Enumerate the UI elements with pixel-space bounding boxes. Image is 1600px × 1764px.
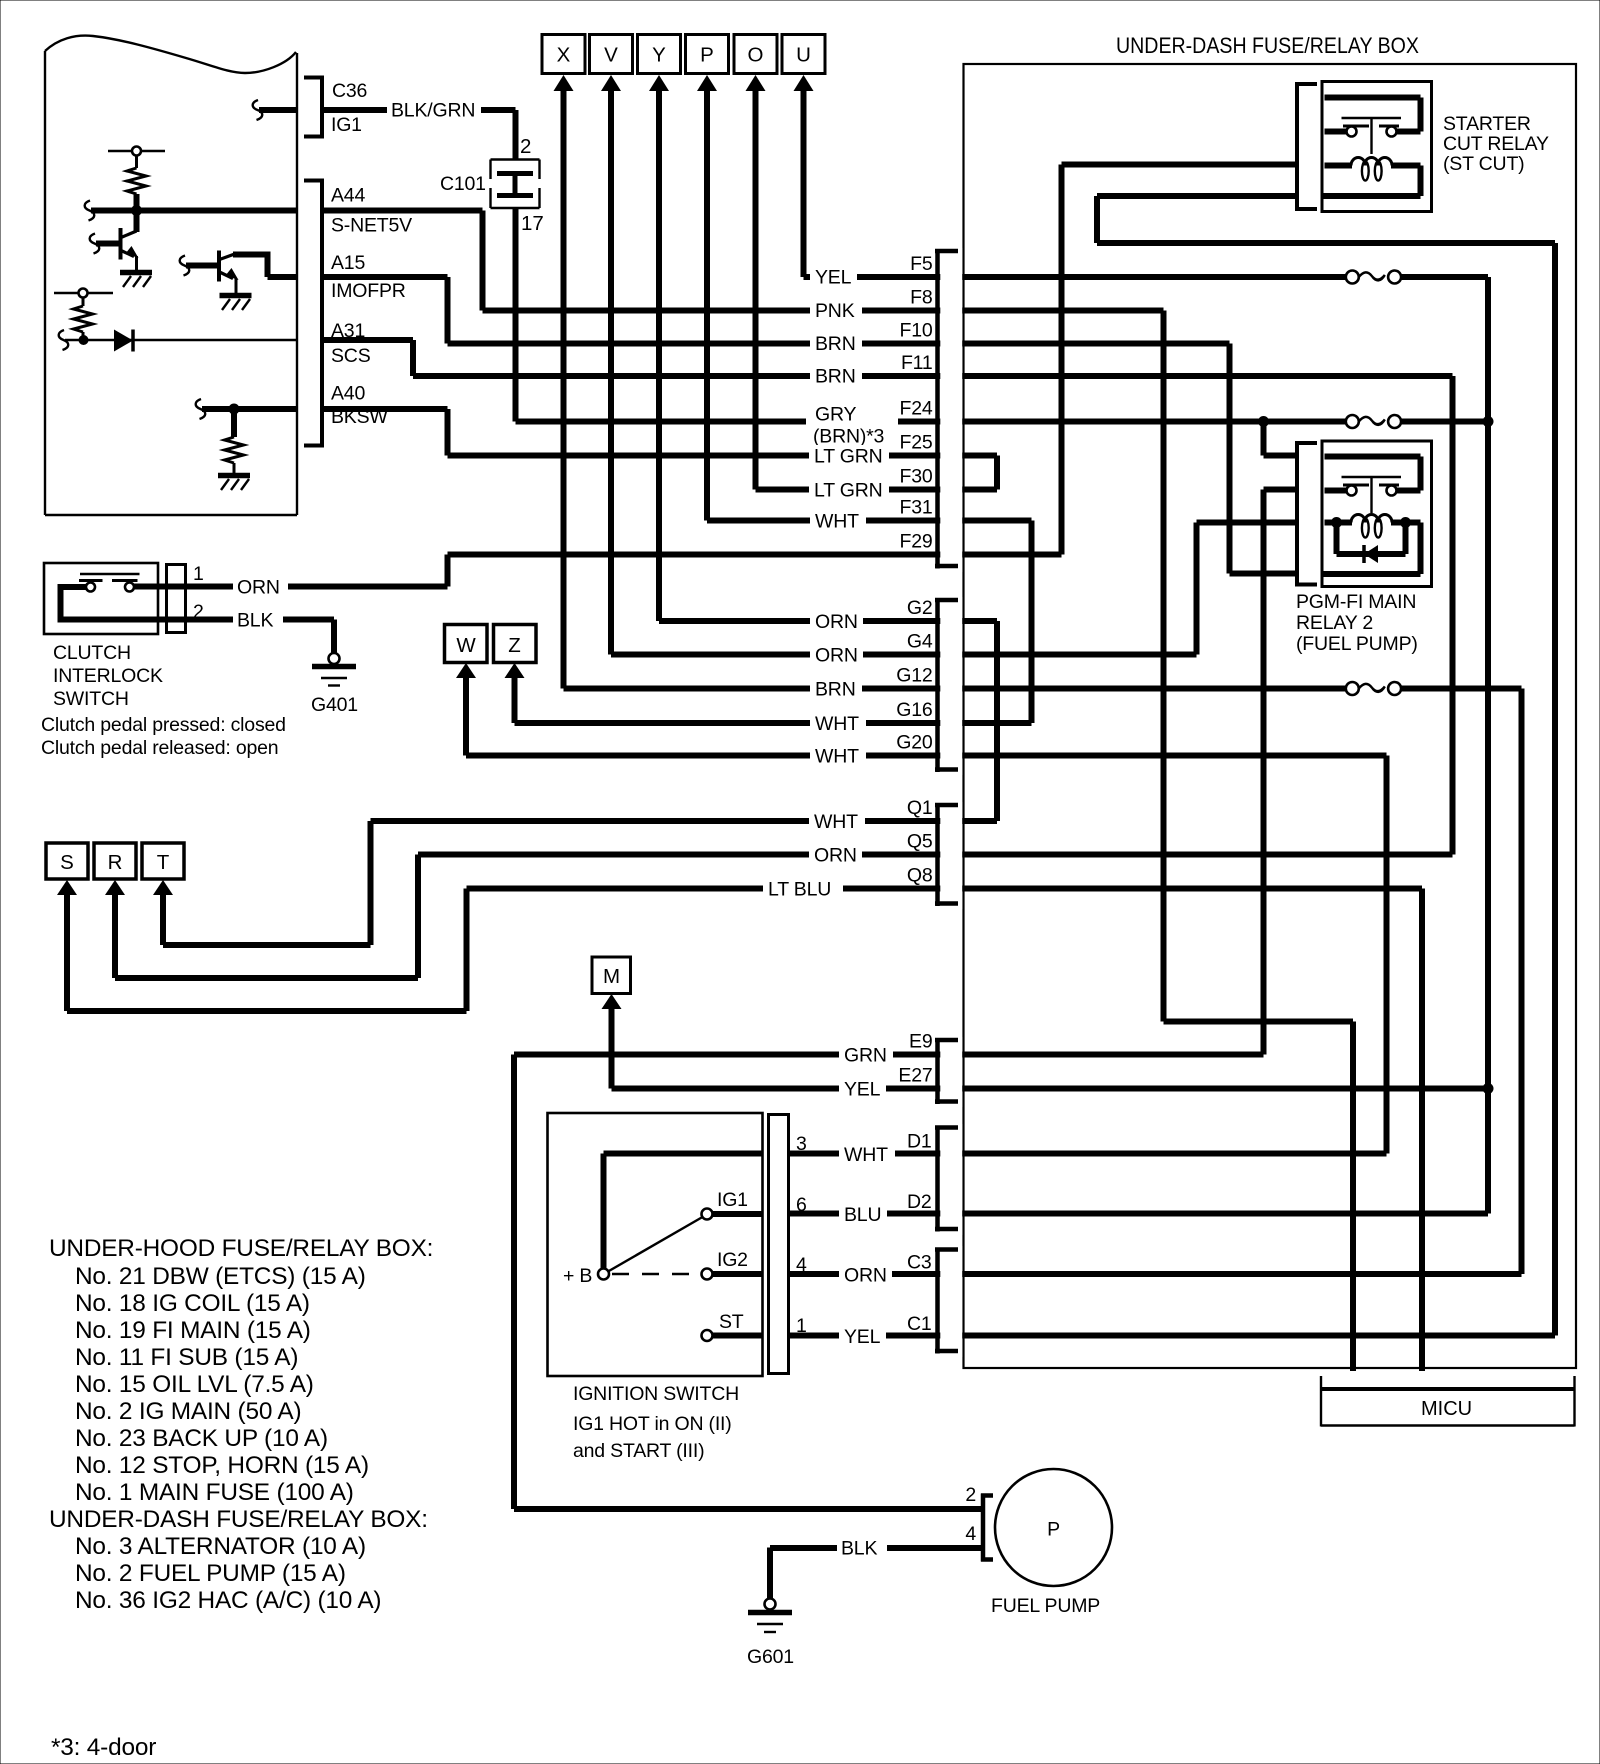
wire Y arrow stem down to G2 (656, 88, 662, 621)
svg-text:T: T (157, 851, 170, 874)
svg-text:2: 2 (965, 1484, 976, 1506)
svg-text:P: P (1047, 1519, 1060, 1541)
wire P arrow stem down to F31 (704, 88, 710, 521)
svg-text:F31: F31 (899, 497, 932, 519)
wire F24 junction to PGM-FI relay feed (1264, 422, 1298, 456)
svg-text:LT GRN: LT GRN (814, 446, 883, 468)
terminal +B (563, 1265, 609, 1287)
terminal ST (702, 1311, 763, 1341)
MICU box (1321, 1376, 1575, 1427)
wire G4 ORN row (611, 652, 1197, 658)
UNDER-DASH FUSE/RELAY BOX outline (964, 64, 1577, 1368)
ignition switch +B feed (604, 1154, 763, 1270)
connector bracket D (935, 1127, 958, 1232)
switch wiper to IG1 (608, 1217, 703, 1272)
svg-text:IG1: IG1 (331, 114, 362, 136)
diode D1 (ECM internal, SCS line) (59, 330, 297, 352)
svg-text:No. 11 FI SUB (15 A): No. 11 FI SUB (15 A) (75, 1344, 298, 1371)
wire Q8 riser down to MICU (1419, 889, 1425, 1372)
wire LT GRN F25 row (448, 453, 998, 459)
fuse (G12 row) (1346, 682, 1401, 695)
wire T to Q1 (WHT) (163, 821, 371, 945)
wire Z arrow stem down to G16 (512, 675, 518, 723)
wire BLK fuel pump to G601 (770, 1548, 983, 1600)
svg-text:YEL: YEL (844, 1326, 881, 1348)
svg-text:SWITCH: SWITCH (53, 688, 129, 710)
wire label ORN (clutch) (233, 576, 288, 599)
wire C1 riser up to starter coil return (1097, 196, 1555, 1336)
wire BLK clutch row to G401 (160, 620, 334, 654)
PGM relay switch feed bar (1325, 457, 1421, 491)
svg-text:1: 1 (193, 563, 204, 585)
svg-text:ORN: ORN (844, 1265, 887, 1287)
svg-text:ORN: ORN (815, 611, 858, 633)
svg-text:WHT: WHT (815, 511, 859, 533)
svg-text:PGM-FI MAIN: PGM-FI MAIN (1296, 591, 1416, 613)
svg-text:ORN: ORN (815, 645, 858, 667)
svg-text:UNDER-DASH FUSE/RELAY BOX: UNDER-DASH FUSE/RELAY BOX (1116, 33, 1419, 58)
wire label PNK (810, 300, 862, 323)
terminal IG1 (702, 1189, 763, 1220)
svg-text:R: R (108, 851, 123, 874)
connector box P (686, 35, 729, 92)
svg-text:A40: A40 (331, 383, 365, 405)
wire X arrow stem down to G12 (561, 88, 567, 689)
svg-text:BRN: BRN (815, 333, 856, 355)
svg-text:No. 18 IG COIL (15 A): No. 18 IG COIL (15 A) (75, 1290, 310, 1317)
svg-text:(ST CUT): (ST CUT) (1443, 153, 1524, 175)
wire D1 WHT row (789, 1151, 1387, 1157)
svg-text:Z: Z (508, 634, 521, 657)
wire U arrow stem down to F5 YEL (801, 88, 807, 277)
connector box O (734, 35, 777, 92)
svg-text:Q1: Q1 (907, 797, 933, 819)
relay box STARTER CUT RELAY (1322, 82, 1432, 212)
ignition switch box (548, 1113, 763, 1376)
connector box T (142, 843, 184, 895)
white gap between brackets and box edge (940, 248, 962, 1357)
svg-text:G4: G4 (907, 631, 933, 653)
svg-text:FUEL PUMP: FUEL PUMP (991, 1595, 1100, 1617)
svg-text:X: X (557, 44, 571, 67)
connector bracket E (935, 1040, 958, 1105)
ground G401 (311, 653, 358, 716)
svg-text:E9: E9 (909, 1031, 932, 1053)
svg-text:WHT: WHT (815, 713, 859, 735)
svg-text:WHT: WHT (814, 811, 858, 833)
svg-text:6: 6 (796, 1194, 807, 1216)
PGM relay switch armature (1342, 477, 1402, 513)
node A40 junction dot (229, 404, 240, 415)
relay box PGM-FI MAIN RELAY 2 (1322, 441, 1432, 587)
wire C3 ORN row (789, 1271, 1522, 1277)
connector C101 symbol (491, 160, 540, 209)
svg-text:ORN: ORN (814, 845, 857, 867)
svg-text:No. 23 BACK UP (10 A): No. 23 BACK UP (10 A) (75, 1425, 328, 1452)
svg-text:BRN: BRN (815, 679, 856, 701)
svg-text:F24: F24 (899, 398, 932, 420)
wire label WHT (D1) (839, 1143, 895, 1167)
wire label GRY (BRN)*3 (806, 404, 898, 448)
wire riser at x447 (445, 277, 451, 344)
wire PNK F8 row (483, 308, 1164, 314)
svg-text:No. 15 OIL LVL (7.5 A): No. 15 OIL LVL (7.5 A) (75, 1371, 314, 1398)
wire label GRN (E9) (839, 1044, 893, 1067)
wire E9 GRN row (514, 1052, 1264, 1058)
svg-text:G601: G601 (747, 1646, 794, 1668)
svg-text:4: 4 (965, 1523, 976, 1545)
wire riser at x447 to F25 (445, 409, 451, 456)
connector box Y (638, 35, 681, 92)
resistor R2 (ECM internal, near SCS) (54, 289, 113, 342)
wire BLK/GRN from IG1 to C101 (322, 110, 516, 160)
connector bracket C36 (304, 78, 324, 138)
svg-text:RELAY 2: RELAY 2 (1296, 612, 1373, 634)
svg-text:3: 3 (796, 1133, 807, 1155)
fuel pump circle P (995, 1469, 1112, 1586)
wire ORN clutch riser at x447 (445, 555, 451, 587)
wire G4 riser up to PGM-FI relay coil (1197, 523, 1298, 655)
wire label BRN (G12) (810, 678, 862, 701)
wire label YEL (C1) (839, 1325, 886, 1349)
svg-text:STARTER: STARTER (1443, 113, 1531, 135)
wire G20-D1 riser inside box (1384, 756, 1390, 1154)
wire G2-Q1 riser inside box (994, 621, 1000, 821)
svg-text:No. 19 FI MAIN (15 A): No. 19 FI MAIN (15 A) (75, 1317, 311, 1344)
svg-text:Clutch pedal released: open: Clutch pedal released: open (41, 737, 278, 759)
wire label BRN (F11) (810, 365, 862, 388)
wire label ORN (Q5) (809, 844, 862, 867)
svg-text:U: U (796, 44, 811, 67)
connector box M (592, 957, 631, 1009)
PGM relay contact circles (1325, 486, 1397, 496)
wire label YEL (E27) (839, 1078, 886, 1101)
wire E9 riser up to PGM-FI relay output (1264, 490, 1298, 1055)
svg-text:No. 2 FUEL PUMP (15 A): No. 2 FUEL PUMP (15 A) (75, 1560, 346, 1587)
node PGM coil left dot (1331, 517, 1342, 528)
svg-text:IGNITION SWITCH: IGNITION SWITCH (573, 1383, 739, 1405)
svg-text:F11: F11 (901, 352, 933, 374)
svg-text:G16: G16 (896, 699, 932, 721)
connector box X (542, 35, 585, 92)
wire label WHT (Q1) (809, 810, 865, 833)
svg-text:17: 17 (521, 212, 544, 235)
wire F8 riser down to MICU (1164, 311, 1354, 1372)
svg-text:F25: F25 (899, 432, 932, 454)
wire W arrow stem down to G20 (463, 675, 469, 756)
wire YEL F5 row (804, 274, 1347, 280)
svg-text:D1: D1 (907, 1131, 932, 1153)
svg-text:ORN: ORN (237, 577, 280, 599)
svg-text:BLK: BLK (237, 610, 273, 632)
wire label BRN (F10) (810, 333, 862, 356)
svg-text:ST: ST (719, 1311, 744, 1333)
wire F24 fused segment to riser (1401, 419, 1488, 425)
svg-text:YEL: YEL (844, 1079, 881, 1101)
fuse (F24 row) (1346, 415, 1401, 428)
wire label LT GRN (F25) (809, 445, 889, 468)
svg-text:No. 2 IG MAIN (50 A): No. 2 IG MAIN (50 A) (75, 1398, 301, 1425)
svg-text:F29: F29 (899, 531, 932, 553)
clutch interlock switch box (44, 563, 158, 634)
wire A44 S-NET5V inside ECM (85, 201, 297, 221)
wire label LT GRN (F30) (809, 479, 889, 502)
wire G12 BRN row (564, 686, 1347, 692)
svg-text:UNDER-DASH FUSE/RELAY BOX:: UNDER-DASH FUSE/RELAY BOX: (49, 1506, 428, 1533)
wire label BLK/GRN (387, 99, 481, 122)
svg-text:V: V (604, 44, 618, 67)
wire SCS A31 run (322, 337, 413, 343)
svg-text:BLU: BLU (844, 1204, 881, 1226)
svg-text:GRY: GRY (815, 404, 856, 426)
note clutch pedal states (41, 714, 286, 759)
wire D2 BLU row (789, 1211, 1489, 1217)
label PGM-FI MAIN RELAY 2 (FUEL PUMP) (1296, 591, 1418, 655)
svg-text:1: 1 (796, 1315, 807, 1337)
svg-text:No. 21 DBW (ETCS) (15 A): No. 21 DBW (ETCS) (15 A) (75, 1263, 366, 1290)
terminal IG2 (702, 1249, 763, 1280)
svg-text:CLUTCH: CLUTCH (53, 642, 131, 664)
wire Q5 ORN row (418, 852, 1453, 858)
wire WHT F31 row (707, 518, 1032, 524)
svg-text:IMOFPR: IMOFPR (331, 280, 406, 302)
svg-text:C1: C1 (907, 1313, 932, 1335)
svg-text:UNDER-HOOD FUSE/RELAY BOX:: UNDER-HOOD FUSE/RELAY BOX: (49, 1235, 433, 1262)
wire label ORN (G4) (810, 644, 863, 667)
svg-text:+ B: + B (563, 1265, 592, 1287)
svg-text:MICU: MICU (1421, 1398, 1472, 1420)
transistor Q2 (ECM internal, IMOFPR) (180, 251, 297, 311)
svg-text:SCS: SCS (331, 345, 371, 367)
svg-text:E27: E27 (898, 1065, 932, 1087)
svg-text:C3: C3 (907, 1252, 932, 1274)
fuse (F5 row) (1346, 271, 1401, 284)
connector bracket A (A44/A15/A31/A40) (304, 181, 324, 447)
label STARTER CUT RELAY (ST CUT) (1443, 113, 1549, 175)
connector box Z (494, 625, 537, 679)
connector bracket Q (935, 805, 958, 907)
node PGM coil right dot (1400, 517, 1411, 528)
wire F5 fused feed right segment (1401, 274, 1488, 280)
svg-text:LT BLU: LT BLU (768, 879, 831, 901)
connector bracket C (935, 1249, 958, 1354)
connector bracket (clutch switch) (165, 563, 187, 634)
wire E9 riser down to fuel pump (514, 1055, 983, 1510)
ground G601 (747, 1599, 794, 1669)
wire ORN clutch row (134, 584, 448, 590)
wire R to Q5 (ORN) (115, 855, 418, 979)
connector box R (94, 843, 136, 895)
wire label WHT (G16) (810, 712, 866, 735)
wire label BLK (clutch) (233, 609, 283, 632)
node A31 junction dot (79, 335, 89, 345)
wire F31 riser down to G16 (1029, 521, 1035, 724)
connector box U (782, 35, 825, 92)
wire riser at x413 (410, 340, 416, 376)
svg-text:Q5: Q5 (907, 831, 933, 853)
starter relay coil (1322, 157, 1421, 196)
wire GRY F24 row (516, 419, 1347, 425)
clutch switch internals (61, 574, 161, 620)
svg-text:IG1 HOT in ON (II): IG1 HOT in ON (II) (573, 1413, 732, 1435)
svg-text:BLK/GRN: BLK/GRN (391, 100, 475, 122)
svg-text:Clutch pedal pressed: closed: Clutch pedal pressed: closed (41, 714, 286, 736)
svg-text:Q8: Q8 (907, 865, 933, 887)
svg-text:S: S (60, 851, 74, 874)
svg-text:Y: Y (652, 44, 666, 67)
wire label WHT (G20) (810, 745, 866, 768)
wire C36 IG1 inside ECM (253, 100, 297, 120)
diode (PGM relay flyback) (1337, 523, 1406, 564)
svg-text:and START (III): and START (III) (573, 1440, 704, 1462)
svg-text:G20: G20 (896, 732, 933, 754)
starter relay contact circles (1325, 127, 1397, 137)
svg-text:(BRN)*3: (BRN)*3 (813, 426, 884, 448)
connector bracket (fuel pump) (981, 1494, 993, 1562)
svg-text:S-NET5V: S-NET5V (331, 215, 412, 237)
svg-text:C101: C101 (440, 173, 486, 195)
svg-text:INTERLOCK: INTERLOCK (53, 665, 163, 687)
wire F29 riser up to starter cut relay coil (1062, 165, 1298, 555)
connector bracket (ignition switch) (767, 1113, 790, 1375)
wire O arrow stem down to F30 (753, 88, 759, 490)
svg-text:4: 4 (796, 1254, 807, 1276)
svg-text:No. 1 MAIN FUSE (100 A): No. 1 MAIN FUSE (100 A) (75, 1479, 354, 1506)
svg-text:O: O (748, 44, 764, 67)
svg-text:A44: A44 (331, 185, 365, 207)
resistor R1 with supply terminal (ECM internal) (108, 147, 165, 214)
starter relay switch armature (1342, 118, 1402, 154)
wire G12 fused segment to C3 riser (1401, 689, 1522, 1275)
wire IMOFPR A15 run (322, 274, 448, 280)
svg-text:G12: G12 (896, 665, 932, 687)
wire F10 riser down to PGM-FI coil return (1230, 344, 1298, 574)
svg-text:F10: F10 (899, 320, 932, 342)
wire BKSW A40 run (322, 406, 448, 412)
svg-text:(FUEL PUMP): (FUEL PUMP) (1296, 633, 1418, 655)
connector box V (590, 35, 633, 92)
svg-text:M: M (603, 965, 620, 988)
svg-text:YEL: YEL (815, 267, 852, 289)
svg-text:F5: F5 (910, 253, 933, 275)
PGM relay coil (1322, 515, 1421, 575)
wire GRY (BRN)*3 from C101 to F24 (513, 208, 519, 422)
svg-text:F8: F8 (910, 287, 932, 309)
wire G2 ORN row (659, 618, 997, 624)
wire A40 BKSW inside ECM (196, 399, 297, 419)
svg-text:GRN: GRN (844, 1045, 887, 1067)
wire label BLU (D2) (839, 1203, 887, 1227)
svg-text:2: 2 (193, 601, 204, 623)
node junction dot F24/F5 riser (1483, 416, 1494, 427)
svg-text:LT GRN: LT GRN (814, 480, 883, 502)
wire label BLK (fuel pump) (837, 1537, 887, 1560)
wire label ORN (G2) (810, 610, 863, 633)
svg-text:BLK: BLK (841, 1538, 877, 1560)
wire F11 riser down to Q5 (1450, 376, 1456, 855)
svg-text:G401: G401 (311, 694, 358, 716)
note IG1 HOT in ON (II) and START (III) (573, 1413, 732, 1462)
wire E27 YEL row (612, 1086, 1488, 1092)
svg-text:No. 12 STOP, HORN (15 A): No. 12 STOP, HORN (15 A) (75, 1452, 369, 1479)
note UNDER-HOOD fuse list (49, 1235, 433, 1614)
node junction dot E27/F5 riser (1483, 1083, 1494, 1094)
wire riser at x482 (480, 211, 486, 311)
wire V arrow stem down to G4 (608, 88, 614, 655)
node A44 junction dot (131, 205, 142, 216)
wire C1 YEL row (789, 1333, 1556, 1339)
svg-text:IG1: IG1 (717, 1189, 748, 1211)
wire S-NET5V to PNK F8 riser (322, 208, 483, 214)
svg-text:A15: A15 (331, 252, 365, 274)
svg-text:D2: D2 (907, 1191, 932, 1213)
wire label WHT (F31) (810, 510, 866, 533)
svg-text:*3: 4-door: *3: 4-door (51, 1734, 156, 1761)
connector box W (445, 625, 488, 679)
svg-text:BRN: BRN (815, 366, 856, 388)
svg-text:No. 3 ALTERNATOR (10 A): No. 3 ALTERNATOR (10 A) (75, 1533, 366, 1560)
svg-text:G2: G2 (907, 597, 933, 619)
wire M stem down to E27 YEL (609, 1006, 615, 1089)
resistor R3 with ground (ECM internal, BKSW) (218, 409, 250, 490)
wire G20 WHT row (466, 753, 1387, 759)
label CLUTCH INTERLOCK SWITCH (53, 642, 163, 710)
wire F29 row (448, 552, 1062, 558)
svg-text:C36: C36 (332, 80, 367, 102)
svg-text:IG2: IG2 (717, 1249, 748, 1271)
wire F5 riser down to D2 (1485, 277, 1491, 1214)
starter relay switch feed bar (1325, 98, 1421, 132)
wire S to Q8 (LT BLU) (67, 889, 467, 1012)
svg-text:W: W (456, 634, 476, 657)
wire label ORN (C3) (839, 1263, 892, 1287)
svg-text:WHT: WHT (815, 746, 859, 768)
svg-text:PNK: PNK (815, 300, 855, 322)
transistor Q1 (ECM internal) (90, 208, 152, 287)
connector bracket F (935, 251, 958, 569)
wire label YEL (810, 266, 857, 289)
wire BRN F10 row (448, 341, 1230, 347)
svg-text:F30: F30 (899, 466, 932, 488)
connector box S (46, 843, 88, 895)
wire G16 WHT row (515, 720, 1032, 726)
dashed wiper to IG2 (612, 1273, 698, 1275)
wire F25-F30 loop inside box (756, 456, 998, 490)
svg-text:WHT: WHT (844, 1144, 888, 1166)
svg-text:No. 36 IG2 HAC (A/C) (10 A): No. 36 IG2 HAC (A/C) (10 A) (75, 1587, 381, 1614)
svg-text:P: P (700, 44, 714, 67)
ECM/PCM box outline with torn wavy top (45, 36, 296, 73)
svg-text:2: 2 (520, 135, 531, 158)
node junction dot at F24/relay feed (1258, 416, 1269, 427)
wire BRN F11 row (413, 373, 1453, 379)
connector bracket (starter cut relay) (1297, 82, 1317, 211)
connector bracket G (935, 600, 958, 773)
wire Q1 WHT row (371, 818, 998, 824)
svg-text:CUT RELAY: CUT RELAY (1443, 133, 1549, 155)
connector bracket (PGM-FI main relay 2) (1297, 441, 1317, 587)
wire label LT BLU (Q8) (763, 878, 843, 901)
wire Q8 LT BLU row (467, 886, 1423, 892)
